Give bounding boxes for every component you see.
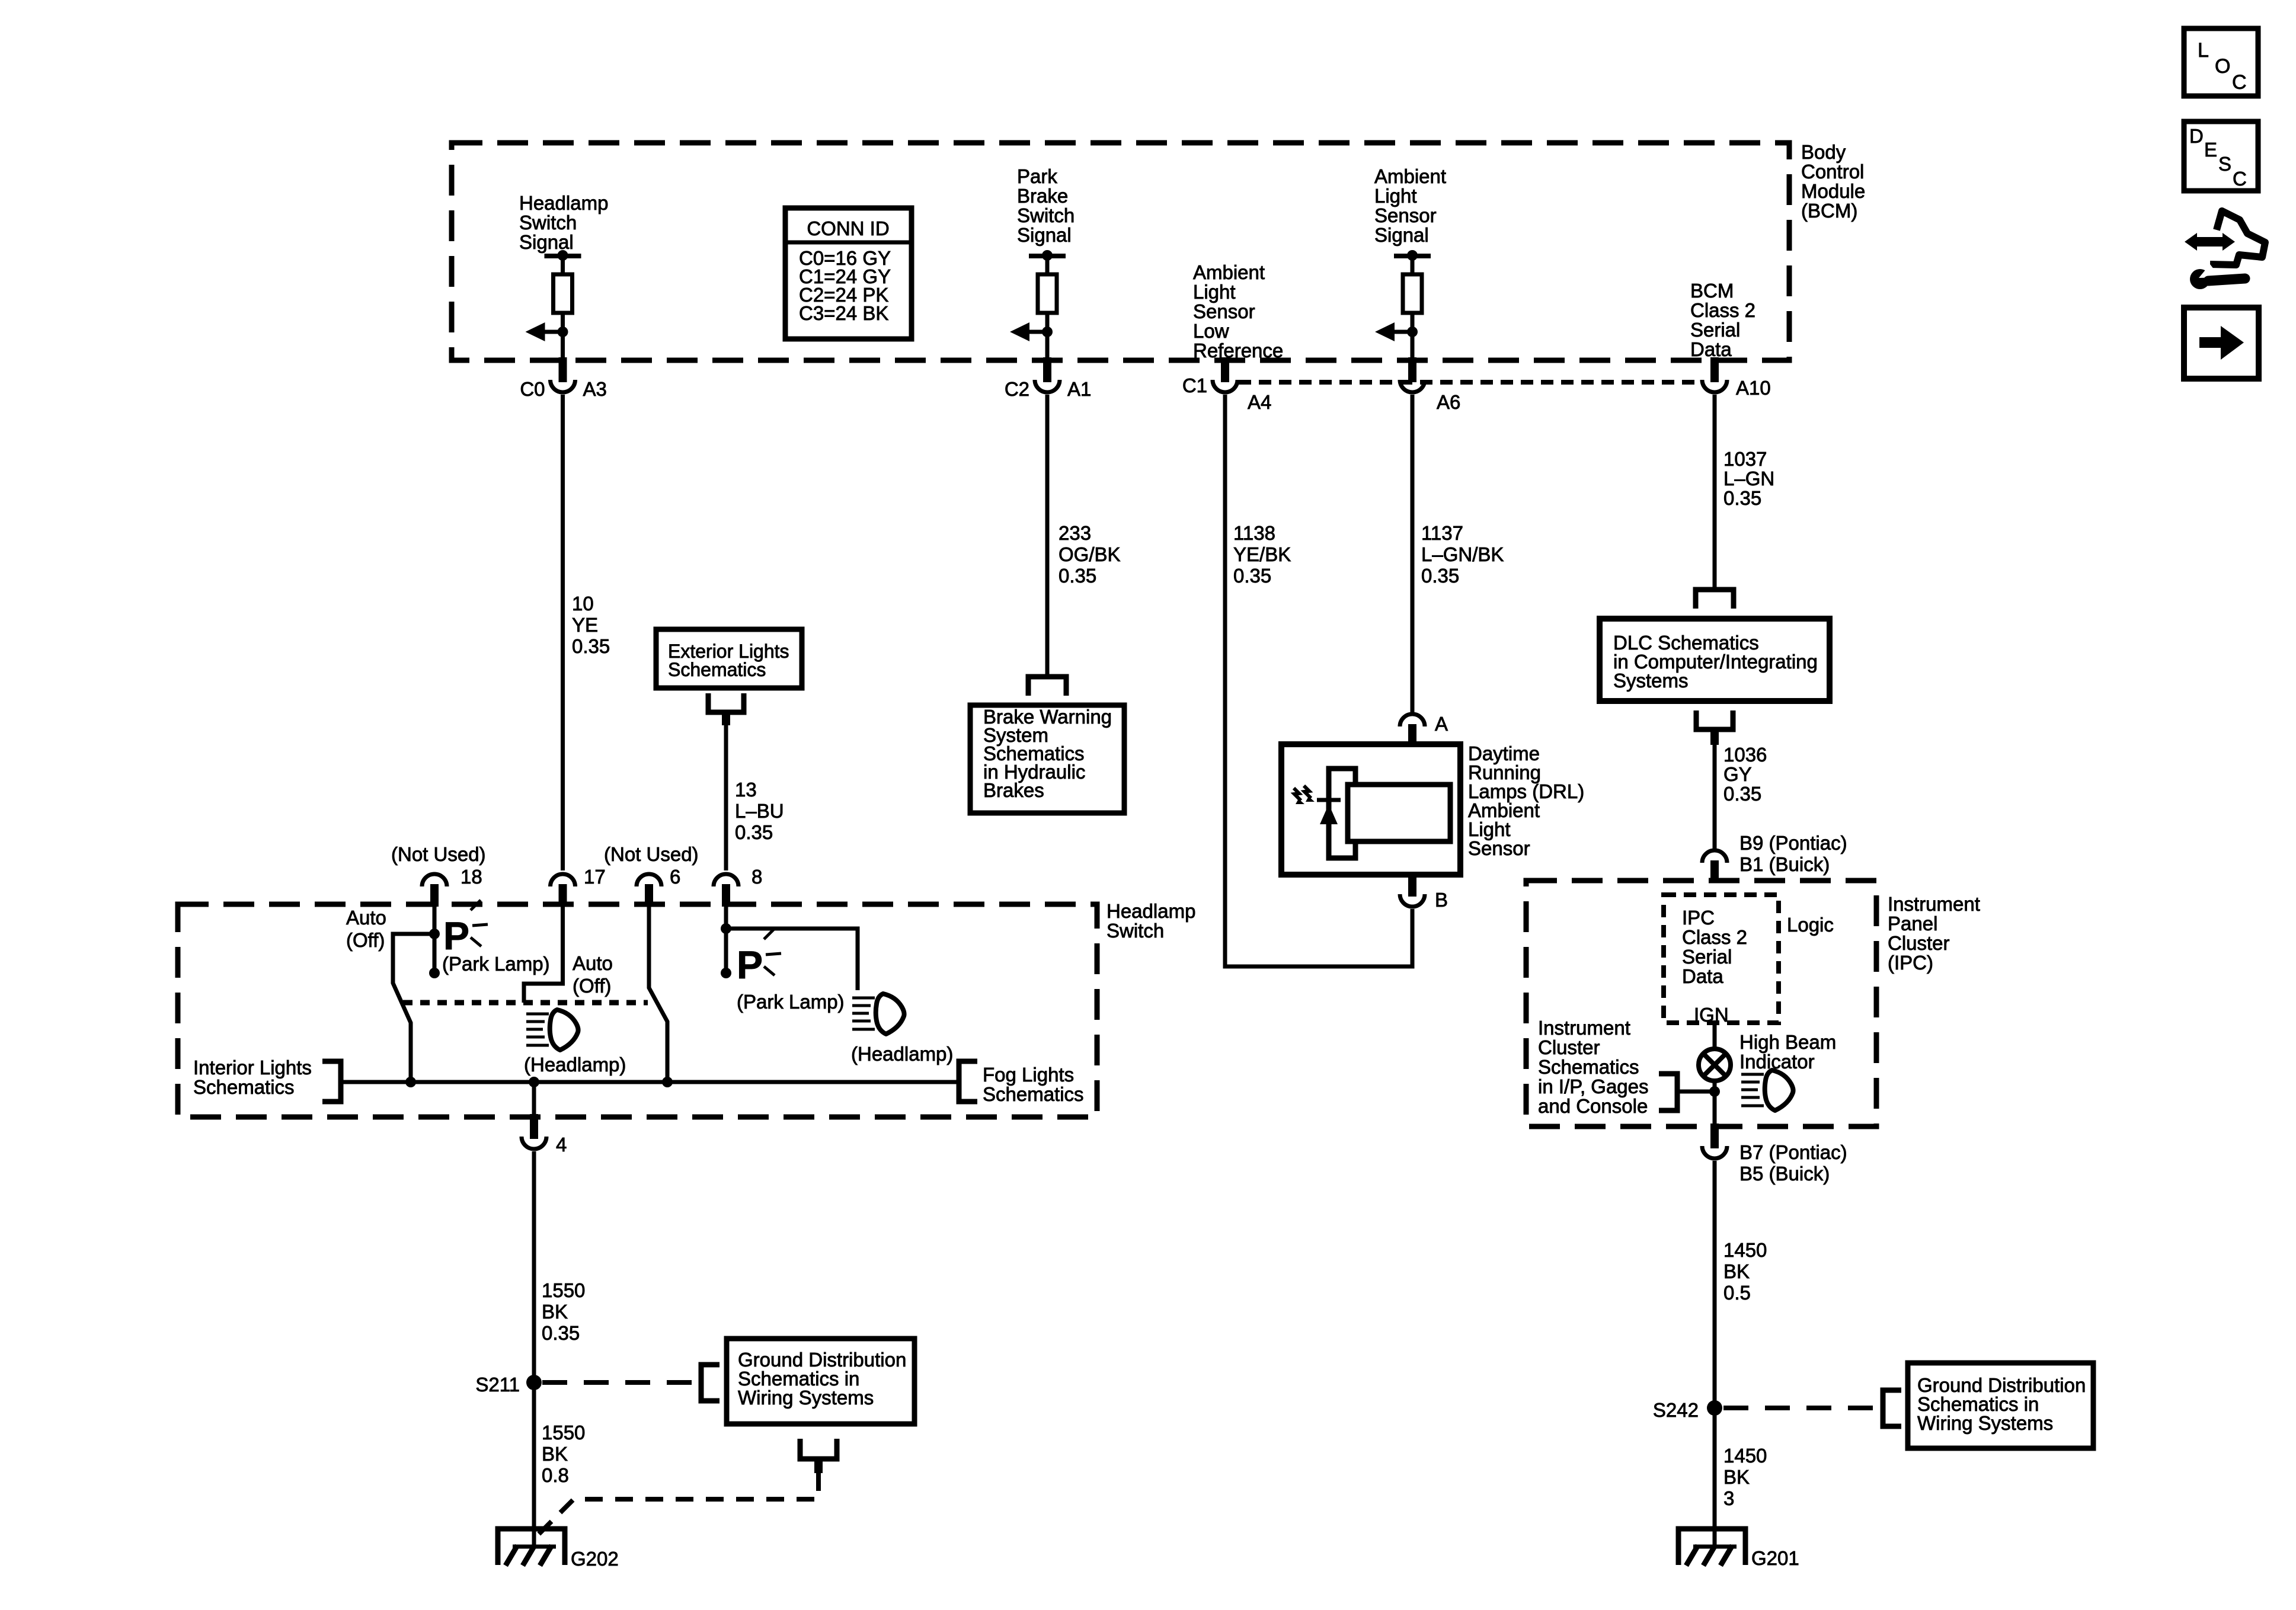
wire	[1411, 256, 1415, 274]
Daytime Running Lamps (DRL) Ambient Light Sensor box	[1281, 744, 1460, 875]
wire 1550 BK 0.8 down to G202	[532, 1382, 536, 1548]
pin 8 wire	[724, 907, 728, 973]
in-line connector dashed row	[1239, 380, 1700, 385]
bracket below Exterior Lights box	[708, 693, 744, 712]
svg-text:S211: S211	[475, 1374, 520, 1395]
bracket to Interior Lights Schematics	[322, 1061, 341, 1102]
svg-text:G202: G202	[571, 1548, 619, 1570]
svg-text:YE/BK: YE/BK	[1233, 543, 1291, 565]
svg-text:1036: 1036	[1723, 744, 1767, 766]
svg-text:1550: 1550	[542, 1279, 585, 1301]
dashed reference wire to ground distribution (left)	[542, 1380, 698, 1385]
svg-text:B1 (Buick): B1 (Buick)	[1739, 853, 1830, 875]
bus junction nodes	[405, 1077, 416, 1087]
svg-text:Switch: Switch	[1107, 920, 1164, 942]
svg-text:Headlamp: Headlamp	[519, 192, 608, 214]
wrench	[2190, 269, 2210, 289]
switch wiper pin 6 to output	[649, 907, 667, 1082]
svg-text:(Not Used): (Not Used)	[391, 843, 486, 865]
wire B down (joins 1138 loop)	[1411, 909, 1415, 966]
Exterior Lights Schematics box	[656, 629, 802, 688]
svg-text:OG/BK: OG/BK	[1059, 543, 1121, 565]
svg-text:Signal: Signal	[1374, 224, 1429, 246]
connector pin 17	[551, 874, 575, 886]
connector C1/A4	[1221, 357, 1229, 382]
svg-text:CONN ID: CONN ID	[807, 217, 889, 239]
wire logic to indicator	[1713, 1023, 1717, 1050]
svg-text:Schematics: Schematics	[1538, 1056, 1639, 1078]
svg-text:Sensor: Sensor	[1374, 204, 1437, 226]
svg-text:Body: Body	[1801, 141, 1846, 163]
output arrow	[545, 330, 563, 334]
connector A6	[1408, 357, 1416, 382]
connector pin 18	[422, 874, 447, 886]
svg-text:Instrument: Instrument	[1538, 1017, 1630, 1039]
svg-text:233: 233	[1059, 522, 1091, 544]
svg-text:BK: BK	[1723, 1466, 1750, 1488]
svg-text:Ambient: Ambient	[1374, 165, 1446, 187]
connector A (DRL sensor)	[1400, 714, 1425, 726]
svg-text:Systems: Systems	[1613, 670, 1689, 692]
svg-text:A6: A6	[1437, 391, 1460, 413]
svg-text:YE: YE	[572, 614, 598, 636]
wire 1137 L-GN/BK down to DRL sensor A	[1411, 395, 1415, 716]
svg-text:(Park Lamp): (Park Lamp)	[442, 953, 550, 975]
switch contact bar	[1029, 254, 1066, 258]
svg-text:A3: A3	[583, 378, 607, 400]
photodiode clamp outline	[1329, 769, 1355, 858]
wire	[1045, 256, 1050, 274]
svg-text:1137: 1137	[1421, 522, 1463, 544]
svg-text:0.35: 0.35	[1233, 565, 1271, 587]
svg-text:Switch: Switch	[1017, 204, 1075, 226]
resistor	[554, 274, 573, 313]
IPC logic dashed box	[1664, 895, 1779, 1023]
node pin 8	[721, 923, 731, 934]
switch contact bar	[545, 254, 581, 258]
svg-text:(Headlamp): (Headlamp)	[524, 1054, 626, 1076]
Ground Distribution box (right)	[1908, 1363, 2093, 1448]
switch contact bar	[1394, 254, 1431, 258]
svg-text:BK: BK	[542, 1443, 568, 1465]
output arrow	[1394, 330, 1412, 334]
bracket below DLC box	[1696, 710, 1733, 729]
svg-text:Light: Light	[1193, 281, 1236, 303]
svg-text:0.35: 0.35	[1059, 565, 1096, 587]
svg-text:(Park Lamp): (Park Lamp)	[737, 991, 845, 1013]
DLC Schematics box	[1600, 619, 1830, 701]
bracket to ground distribution box (left)	[701, 1365, 720, 1401]
svg-text:0.35: 0.35	[1421, 565, 1459, 587]
headlamp position symbol	[526, 1013, 549, 1016]
svg-text:0.8: 0.8	[542, 1464, 569, 1486]
svg-text:in I/P, Gages: in I/P, Gages	[1538, 1076, 1649, 1097]
wire 1450 BK 3 down to G201	[1713, 1408, 1717, 1548]
bracket to Instrument Cluster Schematics	[1659, 1074, 1677, 1110]
svg-text:Brakes: Brakes	[983, 779, 1044, 801]
svg-text:B7 (Pontiac): B7 (Pontiac)	[1739, 1141, 1847, 1163]
svg-text:A: A	[1435, 713, 1448, 735]
high beam indicator lamp (circle-X)	[1699, 1049, 1731, 1081]
wire 13 L-BU down to pin 8	[724, 725, 728, 870]
mechanical link dotted line	[403, 1000, 648, 1006]
svg-text:and Console: and Console	[1538, 1095, 1648, 1117]
svg-text:D: D	[2189, 125, 2204, 147]
svg-text:Low: Low	[1193, 320, 1229, 342]
connector B7/B5 (IPC)	[1710, 1124, 1719, 1148]
photodiode (diode)	[1317, 798, 1341, 802]
connector A10	[1710, 357, 1719, 382]
diagnostic harness icon	[2210, 211, 2265, 265]
bracket to ground distribution box	[1883, 1390, 1901, 1426]
wire	[561, 256, 565, 274]
svg-text:10: 10	[572, 593, 594, 614]
svg-text:IGN: IGN	[1694, 1004, 1729, 1026]
svg-text:C0: C0	[520, 378, 545, 400]
svg-text:Ambient: Ambient	[1193, 261, 1265, 283]
svg-text:Data: Data	[1682, 965, 1723, 987]
svg-text:(Off): (Off)	[573, 975, 611, 997]
wire	[1411, 313, 1415, 359]
svg-text:8: 8	[752, 866, 762, 888]
svg-text:High Beam: High Beam	[1739, 1031, 1836, 1053]
Ground Distribution box (left)	[727, 1339, 914, 1424]
pin 17 wire to wiper contact	[524, 907, 563, 1003]
connector B (DRL sensor)	[1408, 872, 1416, 897]
svg-text:6: 6	[670, 866, 680, 888]
wire to headlamp contact	[726, 929, 858, 990]
connector pin 6	[637, 874, 661, 886]
svg-text:17: 17	[584, 866, 606, 888]
svg-text:(IPC): (IPC)	[1888, 952, 1933, 974]
svg-text:0.35: 0.35	[1723, 783, 1761, 805]
svg-text:BK: BK	[542, 1301, 568, 1323]
bracket below ground distribution box	[800, 1439, 837, 1459]
bracket to Fog Lights Schematics	[959, 1061, 977, 1102]
svg-text:C: C	[2232, 71, 2247, 94]
park lamp contact node 2	[721, 968, 731, 978]
svg-text:C3=24 BK: C3=24 BK	[799, 302, 888, 324]
svg-text:BK: BK	[1723, 1260, 1750, 1282]
svg-text:Control: Control	[1801, 161, 1864, 183]
svg-text:Instrument: Instrument	[1888, 893, 1980, 915]
svg-text:(Not Used): (Not Used)	[604, 843, 699, 865]
svg-text:B9 (Pontiac): B9 (Pontiac)	[1739, 832, 1847, 854]
splice S211	[526, 1375, 542, 1390]
svg-text:A1: A1	[1067, 378, 1091, 400]
output arrow	[1029, 330, 1047, 334]
svg-text:P: P	[443, 914, 469, 958]
pin 18 wire to park lamp contact	[433, 907, 437, 973]
resistor	[1038, 274, 1057, 313]
svg-text:Sensor: Sensor	[1193, 300, 1255, 322]
svg-text:Auto: Auto	[573, 952, 613, 974]
svg-text:13: 13	[735, 779, 757, 801]
bracket to Brake Warning box	[1028, 677, 1066, 696]
double arrow	[2194, 237, 2225, 247]
svg-text:L–GN: L–GN	[1723, 468, 1774, 489]
svg-text:Serial: Serial	[1682, 946, 1732, 968]
svg-text:C: C	[2233, 168, 2247, 190]
svg-text:0.35: 0.35	[1723, 487, 1761, 509]
svg-text:Class 2: Class 2	[1682, 926, 1747, 948]
svg-text:1550: 1550	[542, 1422, 585, 1443]
Headlamp Switch dashed box	[178, 904, 1097, 1117]
svg-text:C1: C1	[1182, 375, 1207, 396]
svg-text:Reference: Reference	[1193, 340, 1283, 361]
wire to pin 4	[532, 1082, 536, 1115]
ground G201	[1678, 1529, 1745, 1565]
node (auto/off)	[429, 929, 440, 939]
svg-text:Serial: Serial	[1690, 319, 1740, 341]
splice S242	[1707, 1400, 1722, 1416]
svg-text:BCM: BCM	[1690, 280, 1734, 302]
svg-text:E: E	[2204, 139, 2217, 161]
svg-text:(BCM): (BCM)	[1801, 200, 1857, 222]
switch wiper pin18 to output	[393, 934, 434, 1082]
svg-text:0.5: 0.5	[1723, 1282, 1751, 1304]
svg-text:Wiring Systems: Wiring Systems	[1917, 1412, 2053, 1434]
svg-text:P: P	[737, 943, 763, 987]
wire to instrument cluster bracket	[1677, 1090, 1715, 1094]
svg-text:Cluster: Cluster	[1888, 932, 1950, 954]
svg-text:Schematics: Schematics	[193, 1076, 295, 1098]
connector pin 4	[530, 1114, 538, 1139]
svg-text:Sensor: Sensor	[1468, 837, 1530, 859]
svg-text:A4: A4	[1248, 391, 1271, 413]
svg-text:1138: 1138	[1233, 522, 1275, 544]
svg-text:Auto: Auto	[346, 907, 386, 929]
svg-text:Data: Data	[1690, 338, 1732, 360]
ground G202	[498, 1529, 565, 1565]
connector C2/A1	[1043, 357, 1051, 382]
svg-text:IPC: IPC	[1682, 907, 1715, 929]
wire indicator to B7	[1713, 1081, 1717, 1125]
svg-text:Switch: Switch	[519, 212, 577, 233]
svg-text:Light: Light	[1374, 185, 1417, 207]
svg-text:Schematics: Schematics	[668, 659, 766, 680]
svg-text:C2: C2	[1005, 378, 1029, 400]
svg-text:1450: 1450	[1723, 1445, 1767, 1467]
svg-text:B: B	[1435, 889, 1448, 911]
wire 10 YE down to headlamp switch pin 17	[561, 395, 565, 870]
svg-text:Wiring Systems: Wiring Systems	[738, 1387, 874, 1409]
svg-text:O: O	[2215, 55, 2230, 78]
svg-text:(Off): (Off)	[346, 929, 385, 951]
wire 233 OG/BK down to brake warning bracket	[1045, 395, 1050, 677]
svg-text:1450: 1450	[1723, 1239, 1767, 1261]
wire 1550 BK down to S211	[532, 1151, 536, 1382]
svg-text:Signal: Signal	[519, 231, 574, 253]
svg-text:A10: A10	[1736, 377, 1771, 399]
svg-text:18: 18	[461, 866, 482, 888]
connector B9/B1 (IPC)	[1702, 850, 1727, 863]
connector C0/A3	[559, 357, 567, 382]
headlamp position symbol 2	[852, 997, 875, 1000]
svg-text:Brake: Brake	[1017, 185, 1068, 207]
svg-text:1037: 1037	[1723, 448, 1767, 470]
sensor inner body	[1348, 785, 1450, 841]
svg-text:3: 3	[1723, 1487, 1734, 1509]
svg-text:Module: Module	[1801, 180, 1865, 202]
svg-text:S: S	[2218, 153, 2231, 175]
svg-text:Cluster: Cluster	[1538, 1036, 1600, 1058]
svg-text:G201: G201	[1751, 1547, 1799, 1569]
svg-text:(Headlamp): (Headlamp)	[851, 1043, 953, 1065]
wire 1037 L-GN down to DLC bracket	[1713, 395, 1717, 590]
svg-text:0.35: 0.35	[572, 635, 610, 657]
svg-text:Signal: Signal	[1017, 224, 1072, 246]
junction node	[1709, 1086, 1720, 1097]
svg-text:Class 2: Class 2	[1690, 299, 1755, 321]
incident light arrows	[1294, 788, 1301, 801]
DESC icon box	[2184, 121, 2258, 191]
CONN ID table	[785, 208, 912, 339]
svg-text:0.35: 0.35	[542, 1322, 580, 1344]
svg-text:S242: S242	[1653, 1399, 1699, 1421]
svg-text:4: 4	[556, 1134, 567, 1156]
output bus wire	[341, 1080, 959, 1084]
dashed reference wire to ground distribution	[1723, 1406, 1881, 1410]
dashed route to G202	[537, 1473, 818, 1536]
wire 1036 GY down to IPC B9	[1713, 745, 1717, 849]
svg-text:Logic: Logic	[1787, 914, 1834, 936]
wire	[1045, 313, 1050, 359]
svg-text:Panel: Panel	[1888, 913, 1937, 934]
svg-text:Interior Lights: Interior Lights	[193, 1057, 312, 1078]
svg-text:0.35: 0.35	[735, 821, 773, 843]
connector pin 8	[714, 874, 738, 886]
svg-text:Park: Park	[1017, 165, 1057, 187]
svg-text:Fog Lights: Fog Lights	[983, 1064, 1074, 1086]
LOC icon box	[2184, 28, 2258, 96]
headlamp symbol (high beam)	[1741, 1073, 1764, 1076]
svg-text:L–GN/BK: L–GN/BK	[1421, 543, 1504, 565]
Instrument Panel Cluster (IPC) dashed box	[1526, 881, 1876, 1126]
svg-text:L–BU: L–BU	[735, 800, 784, 822]
svg-text:L: L	[2198, 39, 2209, 62]
svg-text:B5 (Buick): B5 (Buick)	[1739, 1163, 1830, 1185]
forward arrow icon box	[2184, 308, 2259, 379]
wire	[561, 313, 565, 359]
svg-text:Schematics: Schematics	[983, 1083, 1084, 1105]
resistor	[1403, 274, 1422, 313]
wire 1450 BK 0.5 down to S242	[1713, 1161, 1717, 1408]
park lamp contact node	[429, 968, 440, 978]
Brake Warning System box	[970, 705, 1124, 813]
svg-text:Headlamp: Headlamp	[1107, 900, 1195, 922]
Body Control Module (BCM) dashed box	[452, 143, 1789, 360]
svg-text:GY: GY	[1723, 763, 1752, 785]
bracket to DLC box	[1696, 590, 1734, 609]
wire 1138 YE/BK down and over to DRL sensor B	[1225, 395, 1412, 966]
